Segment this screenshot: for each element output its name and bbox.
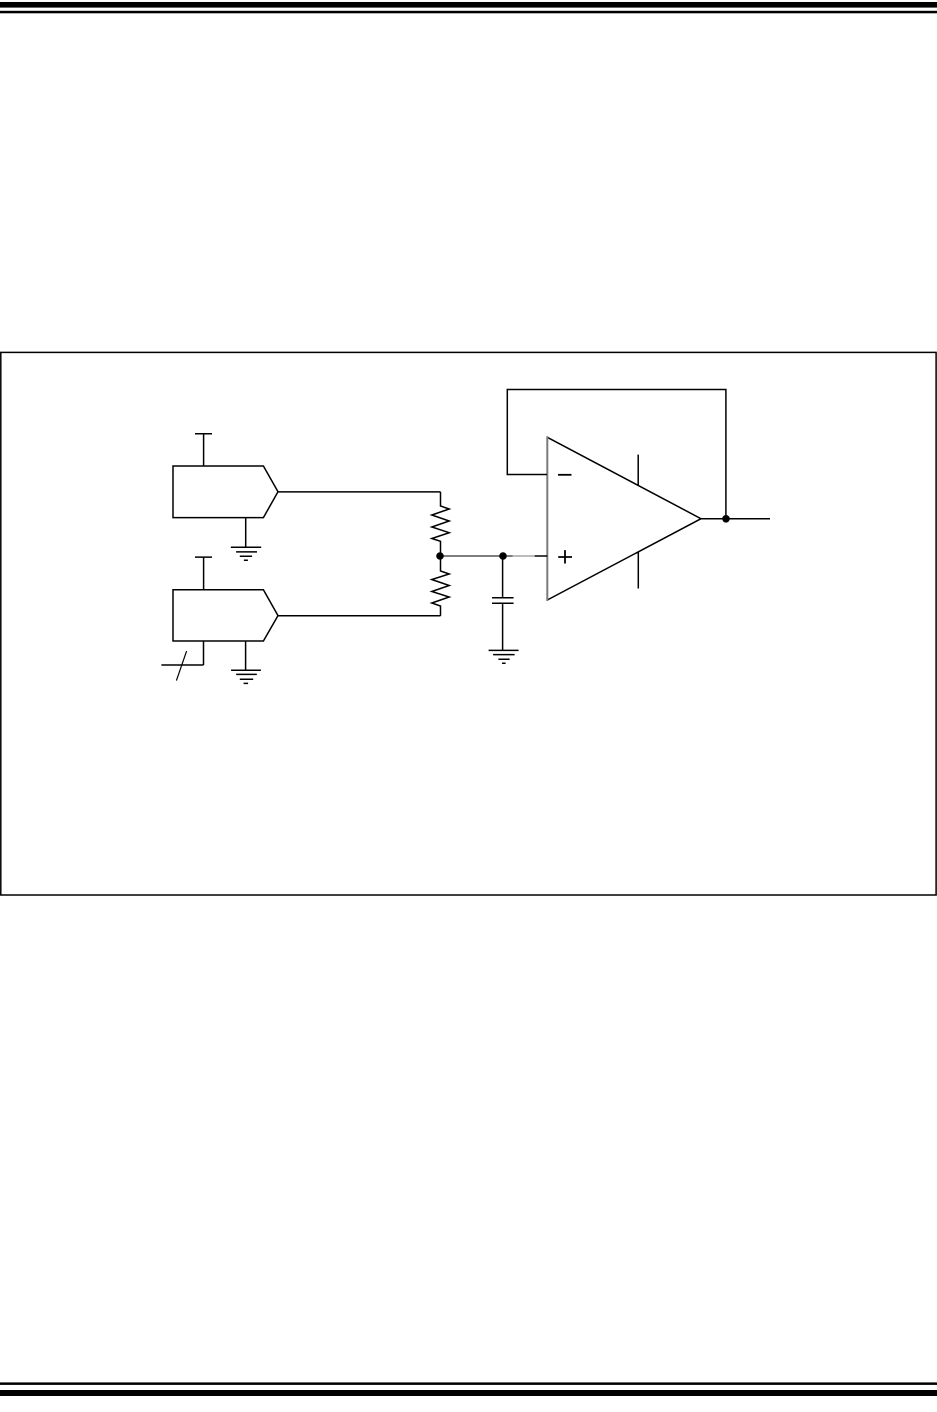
wire U1 ground lead — [245, 518, 247, 548]
power pin of U2 (supply tie-bar) — [195, 557, 212, 590]
wire feedback loop (output to inverting input) — [507, 390, 726, 520]
figure frame — [1, 352, 936, 895]
wire node B to op-amp (light gray) — [513, 555, 535, 557]
op-amp plus sign (non-inverting input) — [558, 550, 572, 563]
wire black stub into non-inverting input — [534, 555, 547, 557]
op-amp minus sign (inverting input) — [558, 474, 572, 476]
wire U2 control input (tris) — [161, 641, 203, 665]
resistor R2 — [432, 556, 449, 616]
node A junction dot — [436, 552, 444, 560]
power pin of U1 (supply tie-bar) — [195, 434, 212, 466]
wire U2 ground lead — [245, 641, 247, 670]
wire from U1 output to resistor R1 — [278, 491, 441, 493]
page header rules — [0, 2, 937, 8]
op-amp U3 left edge — [546, 436, 548, 601]
wire op-amp output — [701, 518, 770, 520]
page footer rules — [0, 1382, 937, 1385]
buffer U2 (lower output driver pentagon) — [173, 590, 278, 641]
ground (under U1) — [231, 547, 261, 560]
node OUT junction dot — [722, 515, 730, 523]
buffer U1 (upper output driver pentagon) — [173, 466, 278, 518]
op-amp bottom power pin — [637, 552, 639, 589]
ground (under U2) — [231, 670, 261, 683]
wire node A to node B (gray) — [440, 555, 513, 557]
wire from U2 output to resistor R2 — [278, 615, 441, 617]
capacitor C1 — [492, 598, 514, 603]
wire capacitor bottom lead — [502, 604, 504, 650]
bus-width slash on control wire — [176, 651, 186, 681]
ground (under capacitor) — [489, 650, 519, 663]
op-amp U3 triangle edges — [547, 437, 701, 600]
op-amp top power pin — [637, 455, 639, 486]
wire capacitor top lead — [502, 556, 504, 597]
resistor R1 — [432, 492, 449, 556]
node B junction dot — [499, 552, 507, 560]
